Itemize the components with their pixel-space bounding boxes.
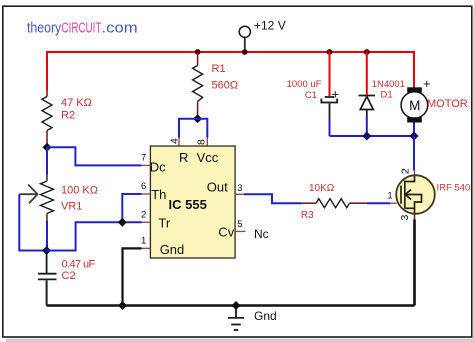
pin 3 stub — [235, 193, 244, 195]
wire Th pin6 drop — [122, 194, 141, 222]
svg-text:Nc: Nc — [254, 227, 269, 241]
power +12V terminal — [239, 19, 286, 53]
resistor R1 560 — [193, 52, 238, 119]
node rail +12V junction — [242, 49, 248, 55]
wire black bottom rail — [47, 304, 415, 307]
resistor R2 47K — [42, 90, 92, 147]
wire red top rail — [47, 51, 414, 53]
svg-text:IRF 540: IRF 540 — [437, 183, 471, 194]
svg-text:Th: Th — [151, 187, 166, 202]
wire bottom junction to Tr pin2 — [47, 222, 142, 250]
svg-text:2: 2 — [141, 209, 146, 220]
node R2 bottom junction — [43, 143, 52, 152]
svg-text:M: M — [409, 98, 420, 113]
potentiometer VR1 100K — [41, 147, 98, 250]
svg-text:C2: C2 — [62, 270, 76, 282]
svg-text:R2: R2 — [61, 110, 75, 122]
node pin1 rail junction — [118, 301, 127, 310]
svg-text:7: 7 — [141, 153, 146, 164]
svg-text:.com: .com — [102, 20, 138, 36]
svg-text:MOTOR: MOTOR — [427, 98, 468, 110]
svg-text:47 KΩ: 47 KΩ — [61, 97, 92, 109]
wire blue mid rail C1-D1-motor — [330, 135, 415, 137]
svg-text:0.47 uF: 0.47 uF — [62, 259, 96, 271]
node D1 mid junction — [362, 132, 371, 141]
svg-text:8: 8 — [196, 139, 208, 145]
svg-text:theory: theory — [27, 19, 61, 35]
wire Out pin3 to R3 — [244, 194, 302, 203]
svg-text:Out: Out — [207, 179, 228, 194]
svg-text:+: + — [423, 76, 431, 91]
wire wiper to bottom junction — [19, 194, 46, 250]
svg-text:Cv: Cv — [218, 225, 234, 240]
pin 6 stub — [142, 193, 151, 195]
pin 1 stub — [142, 247, 151, 249]
svg-text:10KΩ: 10KΩ — [309, 183, 335, 194]
svg-text:IC 555: IC 555 — [169, 197, 207, 212]
wire blue R1 to pins 4 and 8 — [179, 119, 207, 146]
capacitor C1 1000uF — [287, 51, 339, 136]
svg-text:1: 1 — [141, 235, 146, 246]
svg-text:D1: D1 — [381, 90, 393, 101]
pin 7 stub — [142, 164, 151, 166]
wire mosfet source to rail — [414, 214, 416, 220]
wire pin7 to R2 junction — [47, 147, 142, 165]
pin 5 stub — [235, 230, 245, 232]
svg-text:CIRCUIT: CIRCUIT — [62, 20, 102, 36]
svg-text:6: 6 — [141, 181, 146, 192]
VR1 wiper arrow — [19, 185, 37, 204]
svg-text:Gnd: Gnd — [160, 242, 185, 257]
resistor R3 10K — [301, 183, 367, 221]
svg-text:1000 uF: 1000 uF — [287, 79, 322, 90]
svg-text:Gnd: Gnd — [254, 309, 277, 323]
node Th-Tr junction — [118, 218, 127, 227]
svg-text:1: 1 — [388, 191, 393, 201]
svg-text:2: 2 — [400, 168, 412, 174]
IC 555 U1 — [150, 146, 235, 258]
node rail-C1 junction — [327, 49, 333, 55]
wire red rail left drop to R2 — [46, 51, 48, 90]
wire blue motor to mosfet drain — [413, 136, 415, 171]
svg-text:+: + — [332, 87, 340, 102]
svg-text:100 KΩ: 100 KΩ — [61, 185, 98, 197]
wire pin1 Gnd to rail — [123, 248, 142, 305]
node rail-D1 junction — [364, 49, 370, 55]
svg-text:4: 4 — [169, 138, 181, 144]
pin 2 stub — [142, 221, 151, 223]
svg-text:Tr: Tr — [158, 215, 170, 230]
svg-text:Dc: Dc — [150, 159, 166, 174]
motor M — [401, 51, 468, 136]
node VR1 bottom junction — [42, 246, 51, 255]
svg-text:C1: C1 — [305, 90, 317, 101]
svg-text:+12 V: +12 V — [254, 19, 286, 33]
node rail-R1 junction — [195, 49, 201, 55]
node ground rail junction — [232, 301, 241, 310]
svg-text:R3: R3 — [301, 210, 314, 221]
svg-text:VR1: VR1 — [61, 201, 82, 213]
node motor mid junction — [410, 132, 419, 141]
wire R3 to mosfet gate — [367, 202, 390, 204]
diode D1 1N4001 — [359, 51, 405, 136]
svg-text:3: 3 — [399, 215, 411, 221]
svg-text:Vcc: Vcc — [197, 150, 219, 165]
svg-text:R: R — [179, 150, 188, 165]
svg-text:560Ω: 560Ω — [212, 80, 239, 92]
svg-text:1N4001: 1N4001 — [372, 79, 405, 90]
transistor Q1 IRF540 mosfet — [388, 168, 471, 221]
svg-text:3: 3 — [237, 183, 242, 194]
watermark logo theoryCIRCUIT.com — [27, 19, 138, 36]
svg-text:R1: R1 — [212, 63, 226, 75]
capacitor C2 0.47uF — [38, 251, 95, 306]
svg-text:5: 5 — [237, 219, 242, 230]
ground symbol — [228, 306, 277, 331]
node R1 bottom junction — [193, 114, 202, 123]
